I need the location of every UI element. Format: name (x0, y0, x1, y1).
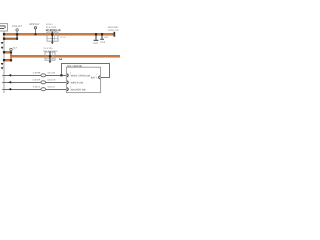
svg-text:G12: G12 (104, 36, 108, 38)
svg-text:JXX 13813B: JXX 13813B (67, 65, 82, 68)
C1 center pin line (51, 31, 53, 42)
svg-text:WAKE UP/DN SW: WAKE UP/DN SW (71, 75, 91, 78)
C1 bottom arrow (51, 42, 54, 44)
main box U1 (66, 67, 100, 92)
svg-text:176A JCT: 176A JCT (12, 25, 22, 28)
svg-text:0.35 BR: 0.35 BR (33, 72, 41, 74)
bus wire (vertical from fuse box) (3, 31, 5, 93)
svg-text:BATT: BATT (91, 76, 97, 79)
svg-text:3: 3 (96, 74, 97, 76)
L1 arrow (8, 74, 11, 77)
svg-text:WPR RLY: WPR RLY (29, 23, 39, 26)
svg-text:C205: C205 (100, 41, 105, 43)
svg-text:5: 5 (70, 86, 71, 88)
splice S2 wire dot (35, 33, 37, 35)
L3 oval (41, 88, 46, 91)
svg-text:7: 7 (70, 79, 71, 81)
L2 oval (41, 81, 46, 84)
L1 oval (41, 74, 46, 77)
wire W1 orange y34 (4, 32, 114, 35)
C2 crossing dot (49, 55, 51, 57)
line L2 (2, 82, 66, 84)
svg-text:PLK C204: PLK C204 (46, 26, 56, 29)
svg-text:4X13 J: 4X13 J (46, 23, 53, 26)
line L1 (2, 75, 66, 77)
junction dot bus-W4 (3, 59, 5, 61)
C1 inner line (47, 37, 57, 39)
svg-text:IGN SW MAIN: IGN SW MAIN (43, 50, 57, 53)
svg-text:0.35 GR: 0.35 GR (32, 79, 40, 81)
ground G2 bar (100, 38, 104, 41)
node vertical joining W3/W4 (10, 52, 11, 61)
junction dot node W4 at x11 (10, 59, 12, 61)
bus arrow 4 (1, 67, 4, 69)
svg-text:MAIN W/H: MAIN W/H (108, 26, 118, 29)
junction dot node W3 at x11 (10, 51, 12, 53)
junction dot G2 (101, 33, 103, 35)
L2 arrow (8, 81, 11, 84)
svg-text:S203 LG: S203 LG (47, 86, 55, 88)
junction dot W2 corner (16, 38, 18, 40)
C2 center pin line (49, 51, 51, 61)
splice S3 stem (10, 51, 12, 53)
pin arc P1 (66, 74, 69, 77)
connector box C2 (45, 52, 55, 60)
pin arc P3 (66, 88, 69, 91)
ground drop G2 stem (101, 36, 103, 39)
L3 arrow (8, 88, 11, 91)
bus arrow 3 (1, 63, 4, 65)
splice S2 circle (34, 27, 36, 29)
wire W2 vertical join at x17 (17, 35, 18, 39)
junction dot L1 branch (60, 74, 62, 76)
svg-text:S202 GR: S202 GR (47, 79, 55, 81)
svg-text:JOINT C/R: JOINT C/R (108, 29, 119, 32)
feed branch U path (62, 64, 110, 78)
wire WB orange y56 (10, 54, 120, 57)
svg-text:G103: G103 (93, 42, 98, 44)
svg-text:I/P BOX(LH): I/P BOX(LH) (46, 29, 61, 32)
junction dot bus-W1 (3, 33, 5, 35)
svg-text:31A: 31A (13, 47, 17, 50)
C1 light vertical (54, 32, 56, 41)
splice S3 circle (10, 48, 12, 50)
splice S2 stem (35, 29, 37, 34)
pin arc P4 right (98, 76, 101, 79)
svg-text:S201 BR: S201 BR (47, 72, 55, 74)
svg-text:5A: 5A (59, 58, 62, 61)
C2 bottom arrow (49, 61, 52, 63)
C2 inner line (45, 57, 54, 59)
svg-text:0.35 LG: 0.35 LG (33, 86, 40, 88)
C1 crossing dot (51, 33, 53, 35)
bus arrow 1 (1, 42, 4, 44)
text labels (scaled tiny) (12, 23, 119, 91)
splice S1 circle (16, 29, 18, 31)
wire W2 orange y38 (4, 37, 18, 40)
wire W4 orange y60 (4, 58, 12, 61)
svg-text:2: 2 (70, 72, 71, 74)
splice S1 stem (16, 31, 18, 33)
svg-text:C1-3 20A: C1-3 20A (43, 47, 52, 50)
junction dot bus-W2 (3, 38, 5, 40)
svg-text:WIPER SW: WIPER SW (71, 82, 83, 85)
ground drop G1 stem (95, 36, 97, 40)
junction dot G1 (95, 33, 97, 35)
svg-text:WASHER SW: WASHER SW (71, 88, 86, 91)
line L3 (2, 89, 66, 91)
fuse element (0, 25, 5, 28)
junction dot node W1/W2 at x17 (16, 33, 18, 35)
fuse box F1 (0, 24, 8, 31)
pin arc P2 (66, 81, 69, 84)
wire W3 orange y52 (4, 50, 12, 53)
bus arrow 2 (1, 47, 4, 49)
connector box C1 (47, 32, 58, 41)
junction dot bus-W3 (3, 51, 5, 53)
ground G1 bar (94, 40, 99, 41)
C2 light vertical (52, 52, 54, 60)
wire W1 end connector (114, 32, 116, 37)
svg-text:C2 04: C2 04 (60, 36, 66, 38)
